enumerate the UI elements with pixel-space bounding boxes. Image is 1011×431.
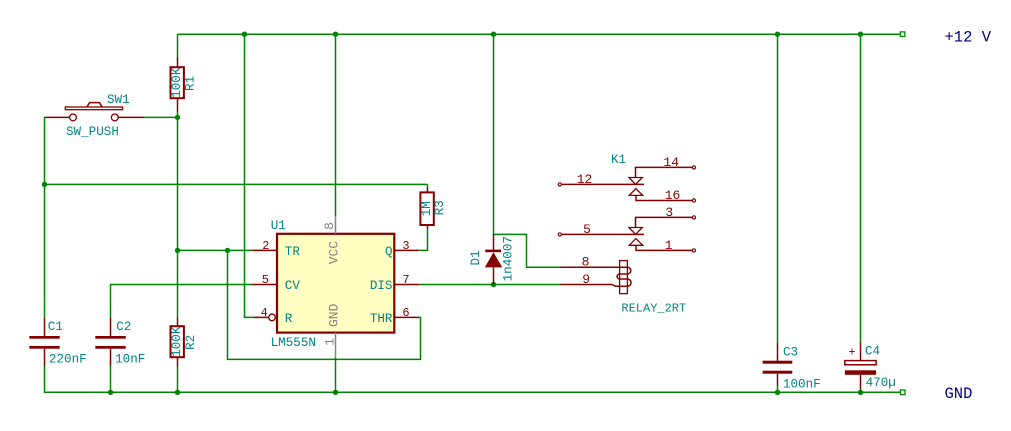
wire R1 bottom to SW1 junction bbox=[177, 112, 179, 117]
pin 5 CV stub bbox=[252, 284, 277, 286]
svg-text:10nF: 10nF bbox=[115, 352, 145, 366]
svg-text:12: 12 bbox=[577, 172, 593, 187]
wire CV line to C2 bbox=[111, 285, 253, 319]
svg-text:2: 2 bbox=[262, 239, 269, 253]
pin 4 R stub with inverting bubble bbox=[253, 316, 268, 318]
svg-text:R: R bbox=[285, 312, 293, 326]
junction rail / VCC vertical bbox=[333, 32, 338, 37]
relay contact B throw pin 1 bbox=[629, 238, 695, 253]
wire GND pin to bottom rail bbox=[335, 358, 337, 393]
capacitor C2 bbox=[95, 318, 145, 366]
junction C3/GND rail bbox=[775, 390, 780, 395]
svg-text:K1: K1 bbox=[611, 153, 626, 167]
junction rail / C3 vertical bbox=[775, 32, 780, 37]
svg-text:D1: D1 bbox=[469, 250, 483, 265]
resistor R3 bbox=[420, 188, 447, 230]
svg-text:GND: GND bbox=[945, 385, 973, 403]
junction DIS/diode bbox=[491, 282, 496, 287]
relay contact B throw pin 3 bbox=[636, 205, 696, 228]
pin 3 Q stub bbox=[394, 249, 418, 251]
svg-text:4: 4 bbox=[261, 306, 268, 320]
junction R1/SW1 bbox=[175, 115, 180, 120]
wire R2 bottom to GND rail bbox=[177, 367, 179, 393]
svg-text:C4: C4 bbox=[865, 345, 880, 359]
junction rail / diode vertical bbox=[491, 32, 496, 37]
svg-text:5: 5 bbox=[262, 273, 269, 287]
wire junction down to TR line bbox=[177, 117, 179, 250]
wire left node down to C1 bbox=[44, 184, 46, 318]
svg-text:8: 8 bbox=[322, 222, 337, 230]
svg-text:THR: THR bbox=[370, 312, 393, 326]
wire rail down to C3 bbox=[777, 34, 779, 343]
svg-text:9: 9 bbox=[582, 272, 590, 287]
junction left node bbox=[42, 182, 47, 187]
svg-text:GND: GND bbox=[326, 303, 341, 327]
wire rail to R1 top bbox=[177, 34, 179, 59]
wire rail to reset pin bbox=[245, 34, 254, 317]
svg-text:+: + bbox=[848, 346, 855, 360]
junction TR/THR branch bbox=[225, 248, 230, 253]
junction C4/GND rail bbox=[858, 390, 863, 395]
svg-text:6: 6 bbox=[402, 306, 409, 320]
relay K1 RELAY_2RT labels bbox=[611, 153, 686, 315]
svg-text:3: 3 bbox=[665, 205, 673, 220]
svg-text:RELAY_2RT: RELAY_2RT bbox=[621, 301, 686, 315]
capacitor C3 bbox=[763, 343, 821, 392]
junction rail / reset vertical bbox=[242, 32, 247, 37]
svg-text:VCC: VCC bbox=[326, 241, 341, 265]
svg-text:1: 1 bbox=[322, 338, 337, 346]
junction GND pin/rail bbox=[333, 390, 338, 395]
wire GND bottom rail bbox=[45, 391, 901, 393]
wire TR junction down to R2 bbox=[177, 250, 179, 317]
relay coil pin 9 stub bbox=[561, 284, 613, 286]
junction C2/GND rail bbox=[108, 390, 113, 395]
svg-text:TR: TR bbox=[285, 245, 301, 259]
svg-text:5: 5 bbox=[583, 222, 591, 237]
wire R3 bottom to Q pin bbox=[419, 229, 428, 250]
resistor R2 bbox=[170, 317, 198, 366]
svg-text:C1: C1 bbox=[48, 320, 63, 334]
capacitor C4 (polarized) bbox=[845, 343, 896, 391]
pin 6 THR stub bbox=[394, 316, 419, 318]
svg-text:7: 7 bbox=[402, 273, 409, 287]
node +12V rail open end square bbox=[900, 32, 905, 37]
svg-text:+12 V: +12 V bbox=[945, 29, 992, 47]
wire C1 bottom to GND rail corner bbox=[45, 366, 48, 392]
svg-text:C2: C2 bbox=[116, 320, 131, 334]
svg-text:LM555N: LM555N bbox=[271, 336, 316, 350]
svg-text:220nF: 220nF bbox=[49, 352, 87, 366]
wire DIS line to relay coil pin 9 bbox=[419, 284, 561, 286]
wire C3 bottom to GND rail bbox=[777, 386, 779, 392]
svg-text:100nF: 100nF bbox=[783, 378, 821, 392]
svg-text:1: 1 bbox=[665, 238, 673, 253]
svg-text:470µ: 470µ bbox=[866, 376, 896, 390]
wire rail down to C4 bbox=[860, 34, 862, 342]
svg-text:CV: CV bbox=[285, 279, 301, 293]
svg-text:R3: R3 bbox=[433, 200, 447, 215]
svg-text:R1: R1 bbox=[183, 76, 197, 91]
wire TR line bbox=[178, 249, 253, 251]
op-amp U1 LM555N body bbox=[271, 219, 395, 350]
capacitor C1 bbox=[29, 318, 86, 366]
svg-text:100K: 100K bbox=[170, 67, 184, 98]
pin 7 DIS stub bbox=[394, 284, 419, 286]
pin 2 TR stub bbox=[252, 249, 277, 251]
relay contact A throw pin 14 bbox=[636, 155, 696, 178]
wire C4 bottom to GND rail bbox=[860, 389, 862, 392]
svg-text:C3: C3 bbox=[783, 345, 798, 359]
svg-text:14: 14 bbox=[663, 155, 679, 170]
junction R2/GND rail bbox=[175, 390, 180, 395]
relay contact A common pin 12 bbox=[558, 172, 644, 187]
svg-text:Q: Q bbox=[385, 245, 393, 259]
wire left node to R3 top (horizontal) bbox=[45, 183, 428, 185]
wire +12V top rail bbox=[178, 33, 901, 35]
svg-text:8: 8 bbox=[582, 255, 590, 270]
switch SW1 bbox=[45, 93, 144, 139]
svg-text:U1: U1 bbox=[271, 219, 286, 233]
svg-text:3: 3 bbox=[402, 239, 409, 253]
svg-text:R2: R2 bbox=[184, 335, 198, 350]
relay contact B common pin 5 bbox=[558, 222, 644, 237]
wire rail to VCC pin 8 bbox=[335, 34, 337, 216]
wire SW1 left pin corner down bbox=[45, 117, 46, 184]
resistor R1 bbox=[170, 58, 197, 112]
svg-text:SW_PUSH: SW_PUSH bbox=[66, 125, 119, 139]
svg-text:16: 16 bbox=[665, 188, 681, 203]
svg-text:1n4007: 1n4007 bbox=[502, 236, 516, 281]
diode D1 bbox=[469, 234, 516, 284]
pin 8 VCC stub (gray) bbox=[335, 216, 337, 234]
wire THR to TR loop bbox=[228, 250, 421, 359]
pin 1 GND stub (gray) bbox=[335, 333, 337, 358]
junction rail / C4 vertical bbox=[858, 32, 863, 37]
junction TR line at R1 vertical bbox=[175, 248, 180, 253]
wire rail down to diode corner and over to coil pin 8 bbox=[494, 34, 561, 267]
wire C2 bottom to GND rail bbox=[110, 366, 112, 392]
svg-text:DIS: DIS bbox=[370, 279, 393, 293]
wire SW1 right pin to junction bbox=[144, 116, 178, 118]
relay contact A throw pin 16 bbox=[629, 188, 695, 203]
svg-text:1M: 1M bbox=[420, 201, 434, 216]
relay coil pin 8 stub bbox=[561, 266, 628, 268]
node GND rail open end square bbox=[900, 390, 905, 395]
wire R3 top corner down bbox=[427, 184, 429, 187]
relay coil body bbox=[612, 261, 631, 294]
svg-text:SW1: SW1 bbox=[107, 93, 130, 107]
svg-text:100K: 100K bbox=[170, 326, 184, 357]
